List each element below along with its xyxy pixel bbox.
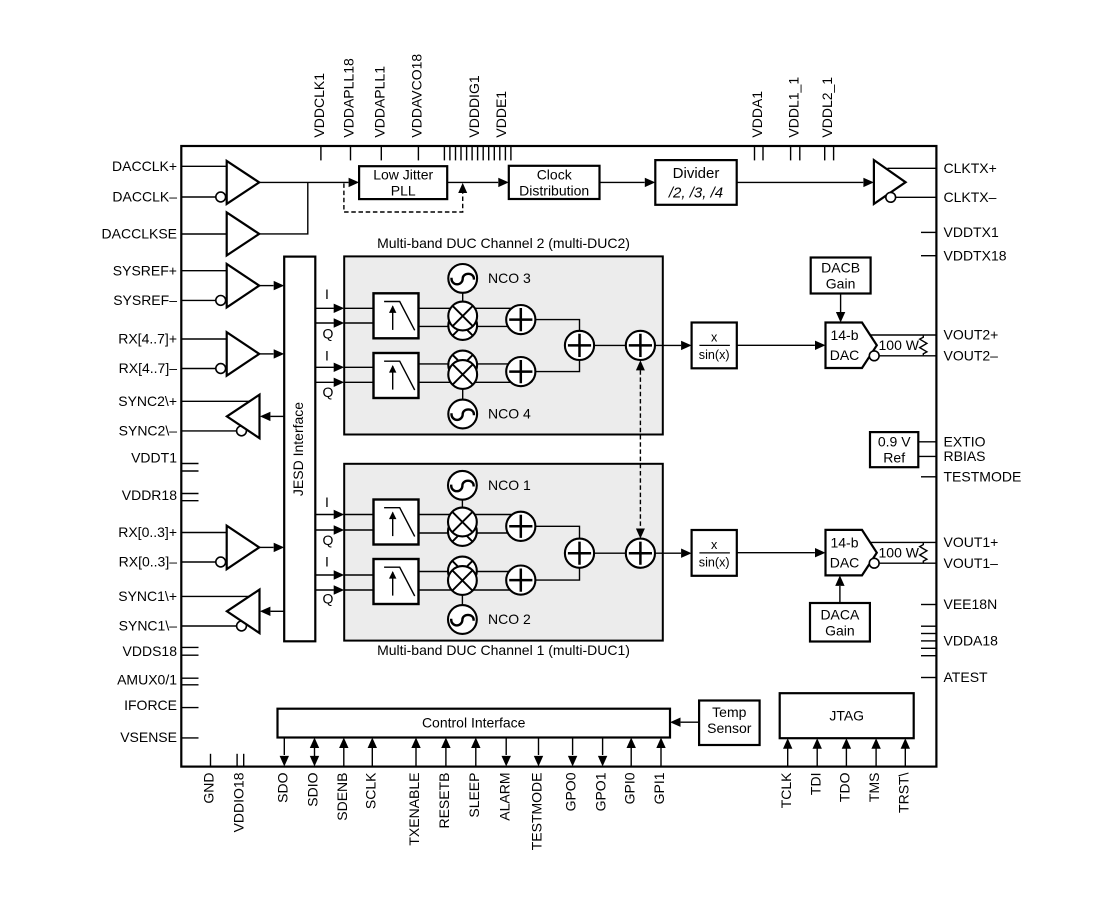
svg-text:VEE18N: VEE18N	[944, 596, 998, 612]
wire sinc2 to DAC2	[737, 341, 826, 350]
DUC1 title	[377, 642, 630, 658]
wire duc1 row1 adder to mid adder	[535, 526, 579, 538]
pin RX[0..3]+ label	[118, 524, 177, 540]
wire duc1 row2 interp to adder	[419, 572, 521, 591]
svg-text:VDDAPLL1: VDDAPLL1	[371, 66, 387, 138]
svg-text:NCO 2: NCO 2	[488, 611, 531, 627]
wire JESD to duc2 Q1	[315, 318, 344, 327]
svg-text:Distribution: Distribution	[519, 182, 589, 198]
pin RX[4..7]+ label	[118, 331, 177, 347]
pin SLEEP label	[466, 773, 482, 818]
pin VDDTX18 label	[944, 247, 1007, 263]
pin VDDTX1 label	[944, 224, 999, 240]
svg-text:Q: Q	[323, 532, 334, 548]
label I duc1 row2	[325, 554, 329, 570]
svg-text:TCLK: TCLK	[778, 772, 794, 808]
wire JESD to duc1 Q1	[315, 525, 344, 534]
pin GPO0 stub (output)	[568, 738, 577, 767]
svg-text:ATEST: ATEST	[944, 669, 989, 685]
wire SYNC1\+	[181, 595, 250, 597]
wire CLKTX-	[896, 196, 937, 198]
svg-text:IFORCE: IFORCE	[124, 697, 177, 713]
pin AMUX0/1 label	[117, 672, 177, 688]
pin TESTMODE right tick	[921, 476, 936, 478]
svg-text:VDDE1: VDDE1	[493, 91, 509, 138]
pin VSENSE tick	[182, 737, 199, 739]
block 0.9 V Ref	[870, 432, 918, 467]
pin GPO1 stub (output)	[598, 738, 607, 767]
pin VDDAPLL18 label	[341, 58, 357, 138]
NCO 4	[448, 400, 477, 429]
DUC1 gray block	[344, 464, 663, 641]
wire DACCLK buffer to PLL	[259, 181, 348, 183]
block DACB Gain	[811, 258, 871, 294]
svg-text:VOUT2–: VOUT2–	[944, 347, 999, 363]
svg-text:Q: Q	[323, 326, 334, 342]
pin VDDIO18 label	[231, 772, 247, 832]
svg-text:AMUX0/1: AMUX0/1	[117, 672, 177, 688]
adder duc2 row2	[506, 357, 535, 386]
inverting bubble SYNC2\-	[237, 426, 247, 436]
pin VDDA1 top ticks	[755, 147, 764, 160]
pin TDI label	[807, 773, 823, 796]
block Divider /2,/3,/4	[655, 160, 736, 205]
pin TDO label	[837, 772, 853, 802]
load resistor 100 W channel 1	[879, 542, 927, 562]
block x/sin(x) channel 1	[692, 530, 737, 576]
wire JESD to duc1 I2	[315, 570, 344, 579]
wire JESD to duc1 I1	[315, 510, 344, 519]
svg-text:Control Interface: Control Interface	[422, 715, 526, 731]
wire DACCLKSE to buffer	[181, 233, 226, 235]
op block Low Jitter PLL	[359, 166, 447, 199]
label I duc2 row2	[325, 348, 329, 364]
pin TMS stub (input)	[871, 738, 880, 766]
svg-text:Divider: Divider	[673, 165, 720, 182]
buffer RX[0..3] input	[227, 526, 260, 570]
wire RX[4..7]+	[181, 338, 226, 340]
pin SYNC2\- label	[119, 423, 178, 439]
wire SYSREF buffer to JESD	[259, 281, 284, 290]
svg-text:VDDDIG1: VDDDIG1	[466, 75, 482, 137]
pin VDDDIG1 label	[466, 75, 482, 137]
wire SYNC2\-	[181, 430, 236, 432]
pin VDDT1 ticks	[182, 464, 199, 472]
svg-text:DACCLK–: DACCLK–	[112, 189, 177, 205]
svg-text:VDDAVCO18: VDDAVCO18	[409, 54, 425, 138]
svg-text:DACA: DACA	[820, 606, 860, 622]
svg-text:SDENB: SDENB	[334, 773, 350, 821]
pin VDDL1_1 top ticks	[791, 147, 800, 160]
DAC B 14-b pentagon	[826, 323, 877, 369]
pin VDDAVCO18 label	[409, 54, 425, 138]
pin TESTMODE bottom label	[529, 773, 545, 851]
wire duc2 row2 interp to adder	[419, 364, 521, 382]
arrow into Divider	[645, 178, 656, 187]
pin VDDT1 label	[131, 450, 177, 466]
wire duc2 mid adder to right adder	[594, 344, 626, 346]
svg-text:TXENABLE: TXENABLE	[406, 773, 422, 846]
mixer duc1 row1 I (front)	[448, 508, 477, 537]
pin ALARM stub (output)	[502, 738, 511, 767]
svg-text:SLEEP: SLEEP	[466, 773, 482, 818]
wire duc1 row2 into interp	[344, 575, 373, 590]
pin VOUT2- label	[944, 347, 999, 363]
pin SCLK label	[362, 772, 378, 809]
svg-text:Ref: Ref	[883, 449, 905, 465]
wire VOUT1+	[870, 541, 936, 543]
wire JESD to duc1 Q2	[315, 585, 344, 594]
svg-text:VDDAPLL18: VDDAPLL18	[341, 58, 357, 138]
pin VEE18N tick	[921, 604, 936, 606]
buffer SYSREF input	[227, 264, 260, 308]
pin EXTIO label	[944, 433, 986, 449]
adder duc1 middle	[565, 539, 594, 568]
wire JESD to SYNC1 buffer	[260, 607, 284, 616]
digital supply tick cluster	[444, 147, 511, 160]
dashed coupling line between DUC adders	[636, 360, 645, 538]
mixer duc2 row2 I (behind)	[448, 351, 477, 380]
svg-text:VSENSE: VSENSE	[120, 729, 177, 745]
svg-text:PLL: PLL	[391, 183, 416, 199]
inverting bubble RX[4..7]-	[216, 364, 226, 374]
wire RX[0..3] buffer to JESD	[259, 543, 284, 552]
wire RX[0..3]-	[181, 561, 216, 563]
pin VDDR18 label	[122, 487, 177, 503]
svg-text:RX[4..7]+: RX[4..7]+	[118, 331, 177, 347]
wire RX[0..3]+	[181, 532, 226, 534]
svg-text:SDIO: SDIO	[305, 772, 321, 806]
svg-text:GND: GND	[201, 773, 217, 804]
inverting bubble VOUT2-	[869, 351, 879, 361]
svg-text:DACCLKSE: DACCLKSE	[102, 226, 177, 242]
mixer duc2 row1 Q (behind)	[448, 311, 477, 340]
pin DACCLKSE label	[102, 226, 177, 242]
adder duc1 row2	[506, 566, 535, 595]
svg-text:14-b: 14-b	[830, 535, 858, 551]
svg-text:ALARM: ALARM	[496, 773, 512, 821]
pin SDIO label	[305, 772, 321, 806]
DUC2 gray block	[344, 256, 663, 434]
svg-text:100 W: 100 W	[879, 337, 920, 353]
wire JESD to duc2 Q2	[315, 378, 344, 387]
svg-text:JTAG: JTAG	[829, 707, 864, 723]
pin TDO stub (input)	[842, 738, 851, 766]
wire Temp Sensor to Control Interface	[670, 718, 699, 727]
pin VDDS18 label	[123, 643, 178, 659]
adder duc1 row1	[506, 512, 535, 541]
pin ALARM label	[496, 773, 512, 821]
dashed PLL bypass	[344, 183, 467, 212]
interpolation filter duc2 row1	[374, 293, 419, 338]
wire DACCLK- to bubble	[181, 196, 216, 198]
svg-text:VDDIO18: VDDIO18	[231, 772, 247, 832]
adder duc2 right	[626, 331, 655, 360]
buffer SYNC1 output	[227, 590, 260, 634]
wire duc1 output to sinc	[655, 549, 692, 558]
svg-text:x: x	[711, 538, 718, 552]
pin TMS label	[866, 773, 882, 803]
pin VDDE1 label	[493, 91, 509, 138]
label I duc1 row1	[325, 494, 329, 510]
pin TDI stub (input)	[813, 738, 822, 766]
svg-text:TDI: TDI	[807, 773, 823, 796]
svg-text:RBIAS: RBIAS	[944, 448, 986, 464]
pin VDDTX1 tick	[921, 231, 936, 233]
pin SDIO stub (bidirectional)	[310, 738, 319, 767]
svg-text:VDDR18: VDDR18	[122, 487, 177, 503]
svg-text:TESTMODE: TESTMODE	[944, 468, 1022, 484]
wire NCO4 to mixer	[462, 388, 464, 400]
pin VOUT2+ label	[944, 327, 999, 343]
svg-text:SYNC2\–: SYNC2\–	[119, 423, 178, 439]
pin SDENB label	[334, 773, 350, 821]
wire Divider to CLKTX buffer	[737, 181, 864, 183]
NCO 1 label	[488, 477, 531, 493]
svg-text:NCO 1: NCO 1	[488, 477, 531, 493]
svg-text:I: I	[325, 286, 329, 302]
pin SYNC2\+ label	[118, 393, 177, 409]
inverting bubble SYSREF-	[216, 296, 226, 306]
pin ATEST tick	[921, 677, 936, 679]
svg-text:SYNC2\+: SYNC2\+	[118, 393, 177, 409]
adder duc2 middle	[565, 331, 594, 360]
pin TESTMODE right label	[944, 468, 1022, 484]
wire duc2 row2 into interp	[344, 367, 373, 382]
svg-text:SDO: SDO	[274, 772, 290, 802]
wire duc1 mid adder to right adder	[594, 552, 626, 554]
svg-text:Clock: Clock	[537, 166, 573, 182]
svg-text:I: I	[325, 348, 329, 364]
svg-text:Q: Q	[323, 384, 334, 400]
pin TCLK label	[778, 772, 794, 808]
pin TRST\ stub (input)	[901, 738, 910, 766]
svg-text:VOUT2+: VOUT2+	[944, 327, 999, 343]
DUC2 title	[377, 235, 630, 251]
inverting bubble CLKTX-	[886, 192, 896, 202]
pin VDDL2_1 top ticks	[825, 147, 834, 160]
pin DACCLK- label	[112, 189, 177, 205]
svg-text:CLKTX+: CLKTX+	[944, 160, 997, 176]
wire EXTIO tick	[918, 441, 936, 443]
pin TXENABLE stub (input)	[411, 738, 420, 767]
block DACA Gain	[810, 603, 870, 642]
wire VOUT1-	[879, 562, 936, 564]
svg-text:TDO: TDO	[837, 772, 853, 802]
svg-text:I: I	[325, 494, 329, 510]
svg-text:Gain: Gain	[826, 276, 856, 292]
svg-text:GPI1: GPI1	[651, 772, 667, 804]
wire NCO1 to mixer	[461, 499, 463, 510]
wire duc2 row1 interp to adder	[419, 308, 521, 326]
wire NCO2 to mixer	[461, 594, 463, 606]
wire RBIAS tick	[918, 455, 936, 457]
pin VDDIO18 ticks	[237, 754, 244, 767]
block JTAG	[780, 693, 914, 738]
pin GPI1 stub (input)	[656, 738, 665, 767]
pin SDENB stub (input)	[339, 738, 348, 767]
wire Clock Distribution to Divider	[600, 181, 645, 183]
wire RX[4..7]-	[181, 368, 216, 370]
pin GND tick	[210, 754, 212, 767]
NCO 2	[448, 605, 477, 634]
pin VDDAPLL18 top tick	[350, 147, 352, 160]
arrow into Clock Distribution	[498, 178, 509, 187]
pin VDDA1 label	[749, 91, 765, 138]
buffer RX[4..7] input	[227, 332, 260, 376]
inverting bubble VOUT1-	[869, 558, 879, 568]
svg-text:TRST\: TRST\	[895, 772, 911, 813]
svg-text:CLKTX–: CLKTX–	[944, 189, 997, 205]
svg-text:/2, /3, /4: /2, /3, /4	[668, 184, 723, 201]
svg-text:TESTMODE: TESTMODE	[529, 773, 545, 851]
svg-text:NCO 3: NCO 3	[488, 270, 531, 286]
pin GPI0 stub (input)	[627, 738, 636, 767]
svg-text:Sensor: Sensor	[707, 720, 752, 736]
svg-text:I: I	[325, 554, 329, 570]
wire CLKTX+	[888, 167, 937, 169]
block x/sin(x) channel 2	[692, 323, 737, 369]
label Q duc2 row2	[323, 384, 334, 400]
pin GPO1 label	[593, 772, 609, 811]
wire NCO3 to mixer	[462, 292, 464, 303]
svg-text:RX[0..3]–: RX[0..3]–	[119, 554, 178, 570]
svg-text:VDDT1: VDDT1	[131, 450, 177, 466]
svg-text:SYNC1\–: SYNC1\–	[119, 618, 178, 634]
wire DACCLKSE buffer join	[259, 182, 308, 234]
pin SYSREF- label	[113, 292, 177, 308]
svg-text:Low Jitter: Low Jitter	[373, 167, 433, 183]
buffer CLKTX output	[874, 160, 906, 204]
label Q duc1 row1	[323, 532, 334, 548]
pin VDDL1_1 label	[785, 77, 801, 138]
svg-text:Q: Q	[323, 591, 334, 607]
pin VDDAVCO18 top tick	[417, 147, 419, 160]
svg-text:sin(x): sin(x)	[699, 555, 730, 569]
inverting bubble RX[0..3]-	[216, 557, 226, 567]
pin RX[0..3]- label	[119, 554, 178, 570]
pin SYNC1\- label	[119, 618, 178, 634]
pin SYNC1\+ label	[118, 588, 177, 604]
mixer duc1 row1 Q (behind)	[448, 517, 477, 546]
svg-text:VDDL2_1: VDDL2_1	[819, 77, 835, 138]
NCO 3 label	[488, 270, 531, 286]
svg-text:Temp: Temp	[712, 704, 746, 720]
svg-text:VOUT1+: VOUT1+	[944, 534, 999, 550]
pin GPI0 label	[621, 772, 637, 804]
svg-text:VDDTX1: VDDTX1	[944, 224, 999, 240]
label I duc2 row1	[325, 286, 329, 302]
svg-text:GPO0: GPO0	[563, 772, 579, 811]
pin VOUT1- label	[944, 555, 999, 571]
buffer DACCLKSE input	[227, 212, 260, 255]
svg-text:VDDA1: VDDA1	[749, 91, 765, 138]
mixer duc2 row2 Q (front)	[448, 360, 477, 389]
svg-text:VOUT1–: VOUT1–	[944, 555, 999, 571]
pin VDDTX18 tick	[921, 255, 936, 257]
pin VDDS18 ticks	[182, 647, 199, 655]
wire SYSREF-	[181, 299, 216, 301]
NCO 2 label	[488, 611, 531, 627]
svg-text:JESD Interface: JESD Interface	[290, 402, 306, 496]
buffer DACCLK input	[227, 161, 260, 204]
pin RESETB stub (input)	[441, 738, 450, 767]
svg-text:14-b: 14-b	[830, 327, 858, 343]
pin TESTMODE stub (output)	[534, 738, 543, 767]
block Control Interface	[278, 709, 671, 738]
mixer duc2 row1 I (front)	[448, 302, 477, 331]
wire RX[4..7] buffer to JESD	[259, 349, 284, 358]
DAC A 14-b pentagon	[826, 530, 877, 576]
pin SDO stub (output)	[280, 738, 289, 767]
pin GPI1 label	[651, 772, 667, 804]
svg-text:DACB: DACB	[821, 260, 860, 276]
pin GPO0 label	[563, 772, 579, 811]
pin RESETB label	[436, 773, 452, 829]
pin CLKTX- label	[944, 189, 997, 205]
svg-text:NCO 4: NCO 4	[488, 406, 531, 422]
pin SYSREF+ label	[113, 262, 177, 278]
pin RX[4..7]- label	[119, 360, 178, 376]
label Q duc1 row2	[323, 591, 334, 607]
svg-text:SYSREF+: SYSREF+	[113, 262, 177, 278]
adder duc1 right	[626, 539, 655, 568]
svg-text:DAC: DAC	[830, 347, 860, 363]
svg-text:SYNC1\+: SYNC1\+	[118, 588, 177, 604]
pin VOUT1+ label	[944, 534, 999, 550]
pin SDO label	[274, 772, 290, 802]
svg-text:sin(x): sin(x)	[699, 348, 730, 362]
pin RBIAS label	[944, 448, 986, 464]
load resistor 100 W channel 2	[879, 335, 927, 355]
pin ATEST label	[944, 669, 989, 685]
arrow into PLL	[349, 178, 360, 187]
svg-text:RESETB: RESETB	[436, 773, 452, 829]
block JESD Interface	[284, 257, 315, 642]
wire JESD to duc2 I1	[315, 304, 344, 313]
interpolation filter duc2 row2	[374, 353, 419, 398]
NCO 1	[448, 471, 477, 500]
wire duc2 output to sinc	[655, 341, 692, 350]
pin IFORCE label	[124, 697, 177, 713]
svg-text:DACCLK+: DACCLK+	[112, 158, 177, 174]
wire DACCLK+ to buffer	[181, 165, 226, 167]
pin CLKTX+ label	[944, 160, 997, 176]
wire JESD to duc2 I2	[315, 363, 344, 372]
svg-text:SYSREF–: SYSREF–	[113, 292, 177, 308]
interpolation filter duc1 row2	[374, 559, 419, 604]
svg-text:RX[4..7]–: RX[4..7]–	[119, 360, 178, 376]
pin VDDCLK1 top tick	[320, 147, 322, 160]
wire JESD to SYNC2 buffer	[260, 412, 284, 421]
wire SYNC2\+	[181, 400, 250, 402]
svg-text:VDDCLK1: VDDCLK1	[311, 73, 327, 138]
svg-text:RX[0..3]+: RX[0..3]+	[118, 524, 177, 540]
svg-text:Gain: Gain	[825, 622, 855, 638]
wire duc1 row2 adder to mid adder	[535, 568, 579, 580]
pin TCLK stub (input)	[783, 738, 792, 766]
pin TRST\ label	[895, 772, 911, 813]
pin VDDAPLL1 label	[371, 66, 387, 138]
block Clock Distribution	[509, 166, 600, 199]
NCO 4 label	[488, 406, 531, 422]
wire DACB Gain to DAC2	[836, 294, 845, 323]
NCO 3	[448, 264, 477, 293]
svg-text:x: x	[711, 331, 718, 345]
pin TXENABLE label	[406, 773, 422, 846]
pin VDDA18 ticks	[921, 626, 936, 656]
pin VSENSE label	[120, 729, 177, 745]
